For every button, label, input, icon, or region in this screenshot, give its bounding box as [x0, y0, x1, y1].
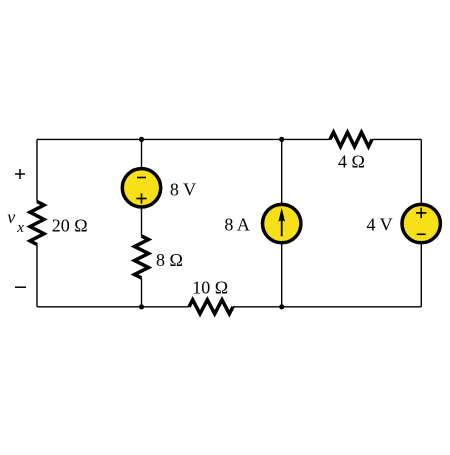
svg-text:8 A: 8 A — [224, 215, 250, 235]
label vx node voltage — [7, 207, 24, 236]
wire right branch upper lead — [420, 139, 422, 203]
voltage source 4V circle — [402, 204, 440, 242]
resistor 8 ohm (branch 2) — [135, 236, 149, 278]
wire bottom-left segment — [37, 306, 142, 308]
wire top-left segment (node A to node B) — [37, 138, 142, 140]
wire branch-3 upper lead (node C to 8A source) — [281, 139, 283, 203]
wire 4-ohm resistor right lead to top-right corner — [372, 138, 421, 140]
svg-text:4 Ω: 4 Ω — [338, 152, 365, 172]
label plus polarity mark (top left) — [15, 169, 25, 179]
svg-text:10 Ω: 10 Ω — [192, 278, 228, 298]
wire bottom to 10-ohm resistor left lead — [142, 306, 190, 308]
wire branch-2 lower lead (8-ohm resistor to bottom) — [141, 278, 143, 307]
svg-text:4 V: 4 V — [367, 215, 393, 235]
8V source plus sign (bottom) — [136, 193, 146, 203]
node C junction dot (top of 8A branch) — [279, 137, 284, 142]
resistor 20 ohm (left branch) — [30, 202, 44, 245]
wire right branch lower lead — [420, 244, 422, 307]
wire left branch upper lead — [36, 139, 38, 201]
wire left branch lower lead — [36, 245, 38, 307]
node B junction dot (top of 8V branch) — [139, 137, 144, 142]
4V source plus sign (top) — [416, 208, 426, 218]
wire branch-3 lower lead (8A source to node D) — [281, 244, 283, 307]
resistor 10 ohm (bottom wire) — [189, 300, 233, 314]
label minus polarity mark (bottom left) — [15, 286, 26, 288]
node D junction dot (bottom of 8A branch) — [279, 304, 284, 309]
4V source minus sign (bottom) — [417, 233, 426, 235]
wire 10-ohm resistor right lead to node D — [233, 306, 282, 308]
8V source minus sign (top) — [137, 177, 146, 179]
svg-text:8 Ω: 8 Ω — [156, 250, 183, 270]
node E junction dot (bottom of 8-ohm branch) — [139, 304, 144, 309]
wire top-middle segment (node B to node C) — [142, 138, 282, 140]
wire branch-2 middle lead (8V source to 8-ohm resistor) — [141, 208, 143, 236]
wire bottom-right segment — [282, 306, 422, 308]
wire branch-2 upper lead (node B to 8V source) — [141, 139, 143, 167]
svg-text:8 V: 8 V — [170, 180, 196, 200]
current source 8A circle — [263, 204, 301, 242]
resistor 4 ohm (top wire) — [330, 132, 372, 146]
svg-text:x: x — [16, 220, 24, 236]
wire top to 4-ohm resistor left lead — [282, 138, 330, 140]
svg-text:v: v — [7, 207, 15, 227]
8A source arrow (pointing up) — [278, 208, 285, 237]
svg-text:20 Ω: 20 Ω — [52, 215, 88, 235]
voltage source 8V circle — [122, 169, 160, 207]
